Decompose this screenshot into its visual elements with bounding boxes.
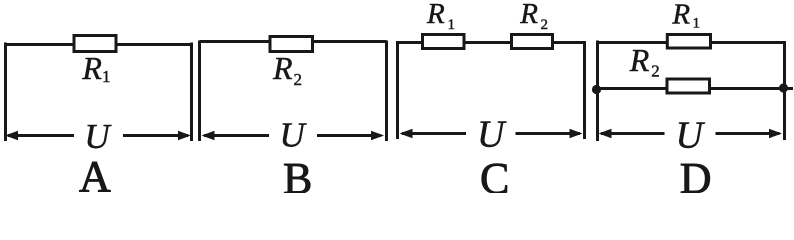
svg-text:U: U: [280, 116, 308, 155]
wire: circuit B top: [200, 40, 387, 43]
label U (circuit D): [676, 115, 706, 157]
label R2 (circuit C): [519, 0, 548, 33]
wire: B left vertical: [198, 41, 201, 142]
wire: D right vertical: [783, 41, 786, 140]
svg-text:C: C: [480, 154, 509, 193]
svg-text:2: 2: [294, 70, 303, 89]
label R2 (circuit B): [272, 50, 302, 89]
svg-text:B: B: [283, 154, 312, 193]
label D: [680, 154, 712, 203]
resistor R1 (circuit A): [74, 36, 116, 52]
svg-text:U: U: [477, 114, 507, 156]
wire: circuit C top: [398, 41, 585, 44]
label U (circuit A): [84, 117, 112, 156]
resistor R1 (circuit D): [667, 35, 710, 49]
label R1 (circuit A): [81, 50, 110, 86]
resistor R1 (circuit C): [423, 35, 465, 49]
voltage arrow U right half (circuit A): [123, 131, 191, 141]
wire: A right vertical: [190, 43, 193, 142]
label B: [283, 154, 312, 203]
svg-text:2: 2: [651, 62, 660, 81]
svg-text:R: R: [671, 0, 690, 30]
resistor R2 (circuit C): [512, 35, 553, 49]
svg-text:U: U: [84, 117, 112, 156]
svg-text:1: 1: [102, 67, 111, 86]
label A: [79, 152, 111, 201]
resistor R2 (circuit B): [270, 37, 313, 52]
label U (circuit C): [477, 114, 507, 156]
svg-text:R: R: [272, 50, 293, 86]
svg-text:2: 2: [541, 17, 549, 33]
svg-text:1: 1: [693, 16, 701, 32]
wire: B right vertical: [385, 41, 388, 142]
label U (circuit B): [280, 116, 308, 155]
voltage arrow U right half (circuit B): [317, 131, 384, 141]
junction dot: D left node: [592, 85, 601, 94]
resistor R2 (circuit D): [667, 79, 710, 93]
svg-text:1: 1: [448, 17, 456, 33]
label R2 (circuit D): [629, 42, 660, 81]
wire: circuit D top: [598, 41, 787, 44]
svg-text:R: R: [81, 50, 102, 86]
svg-text:U: U: [676, 115, 706, 157]
voltage arrow U left half (circuit B): [202, 131, 270, 141]
svg-text:R: R: [629, 42, 650, 78]
label C: [480, 154, 509, 203]
wire: C right vertical: [583, 41, 586, 139]
voltage arrow U right half (circuit C): [516, 129, 583, 139]
wire: C left vertical: [396, 41, 399, 139]
svg-text:D: D: [680, 154, 712, 193]
voltage arrow U right half (circuit D): [716, 129, 783, 139]
voltage arrow U left half (circuit D): [599, 129, 665, 139]
wire: D middle horizontal (R2 branch): [597, 87, 794, 90]
label R1 (circuit C): [426, 0, 455, 33]
wire: circuit A top: [6, 43, 192, 46]
svg-text:A: A: [79, 152, 111, 193]
junction dot: D right node: [779, 83, 788, 92]
voltage arrow U left half (circuit A): [5, 131, 74, 141]
svg-text:R: R: [426, 0, 445, 30]
wire: A left vertical: [4, 43, 7, 142]
svg-text:R: R: [519, 0, 538, 30]
voltage arrow U left half (circuit C): [400, 129, 467, 139]
wire: D left vertical: [596, 41, 599, 142]
label R1 (circuit D): [671, 0, 700, 32]
